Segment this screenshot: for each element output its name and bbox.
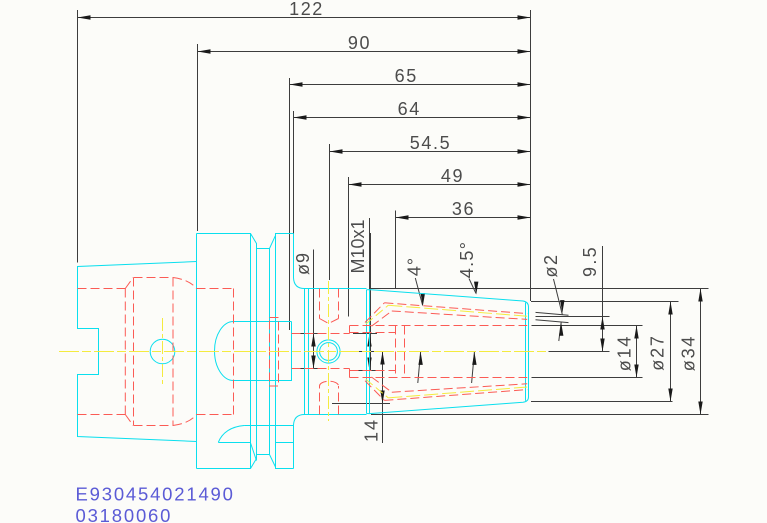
svg-text:ø27: ø27 bbox=[648, 334, 668, 370]
svg-text:E930454021490: E930454021490 bbox=[76, 484, 235, 505]
svg-text:ø9: ø9 bbox=[293, 252, 313, 275]
svg-text:ø14: ø14 bbox=[615, 335, 635, 371]
svg-text:65: 65 bbox=[395, 66, 418, 86]
svg-text:ø34: ø34 bbox=[679, 335, 699, 371]
svg-text:ø2: ø2 bbox=[541, 253, 561, 277]
svg-text:4.5°: 4.5° bbox=[457, 241, 477, 278]
svg-text:M10x1: M10x1 bbox=[348, 219, 368, 273]
svg-text:36: 36 bbox=[452, 199, 475, 219]
svg-text:64: 64 bbox=[398, 99, 421, 119]
svg-text:9.5: 9.5 bbox=[580, 245, 600, 277]
svg-text:54.5: 54.5 bbox=[410, 133, 451, 153]
svg-text:90: 90 bbox=[348, 33, 371, 53]
svg-text:49: 49 bbox=[441, 166, 464, 186]
svg-text:03180060: 03180060 bbox=[76, 505, 173, 523]
svg-text:122: 122 bbox=[289, 0, 324, 19]
svg-text:4°: 4° bbox=[405, 257, 425, 276]
svg-text:14: 14 bbox=[362, 418, 382, 442]
